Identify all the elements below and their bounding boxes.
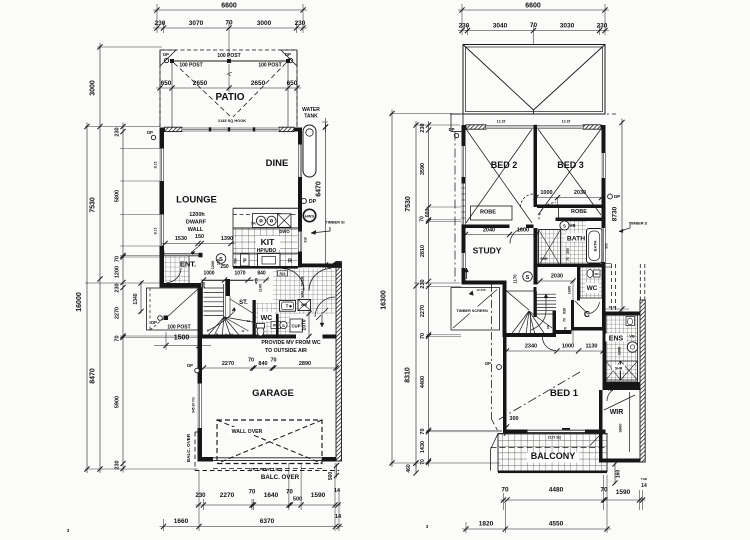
svg-text:460: 460 bbox=[406, 464, 412, 473]
svg-text:16300: 16300 bbox=[381, 290, 388, 310]
svg-text:WIR: WIR bbox=[610, 409, 624, 416]
dim 1070 laundry bbox=[308, 312, 310, 339]
shower next to study bbox=[539, 230, 561, 267]
garage door arrow bbox=[321, 312, 323, 327]
top wall brick piers bbox=[165, 127, 183, 131]
wc first floor bbox=[580, 267, 602, 298]
svg-text:70: 70 bbox=[420, 333, 426, 339]
bed1 ceiling dash-dot line bbox=[498, 372, 580, 420]
svg-text:14: 14 bbox=[641, 483, 647, 489]
kitchen bottom wall bbox=[233, 266, 298, 269]
svg-text:DINE: DINE bbox=[266, 158, 289, 169]
dim 16300 overall first floor bbox=[391, 110, 393, 468]
svg-text:1820: 1820 bbox=[479, 521, 494, 528]
svg-text:SHR: SHR bbox=[615, 367, 623, 371]
washing machine WM bbox=[298, 300, 311, 311]
hot water system HWS bbox=[303, 209, 315, 221]
svg-text:2270: 2270 bbox=[115, 307, 121, 319]
ground floor right wall with windows bbox=[298, 128, 302, 145]
garage dim 2270/70/840/70/2890 bbox=[201, 367, 340, 369]
svg-text:DN: DN bbox=[546, 325, 550, 329]
smoke detector S first floor bbox=[523, 272, 533, 282]
svg-text:1500: 1500 bbox=[174, 335, 190, 342]
room label KIT bbox=[256, 236, 280, 250]
dim 3000/7530/8470 left bbox=[99, 43, 101, 473]
svg-text:LOUNGE: LOUNGE bbox=[176, 195, 217, 206]
bed2/study wall and door bbox=[462, 225, 510, 229]
dwarf wall lounge/ent bbox=[164, 253, 200, 255]
svg-text:DP: DP bbox=[449, 127, 455, 132]
svg-text:1600: 1600 bbox=[517, 228, 529, 234]
svg-text:2650: 2650 bbox=[193, 80, 208, 87]
svg-text:2340: 2340 bbox=[525, 344, 537, 350]
svg-text:1340: 1340 bbox=[133, 293, 139, 304]
svg-text:S: S bbox=[282, 323, 285, 328]
kitchen floor tiles bbox=[234, 229, 298, 267]
svg-text:600: 600 bbox=[425, 209, 431, 218]
downpipe DP first floor right bbox=[608, 194, 613, 199]
svg-text:7530: 7530 bbox=[405, 196, 412, 212]
svg-text:70: 70 bbox=[270, 358, 276, 364]
roof corner box with DP bbox=[451, 114, 463, 132]
svg-text:1200: 1200 bbox=[211, 261, 215, 269]
svg-text:650: 650 bbox=[161, 80, 172, 87]
svg-text:12: 12 bbox=[247, 319, 251, 323]
laundry tub bbox=[280, 301, 296, 312]
wc small tag and S bbox=[271, 322, 281, 329]
svg-text:230: 230 bbox=[115, 283, 121, 292]
svg-text:S: S bbox=[526, 275, 530, 281]
svg-text:B.15: B.15 bbox=[154, 227, 158, 234]
study dim 2040/1600 bbox=[464, 234, 539, 236]
svg-text:TANK: TANK bbox=[304, 114, 318, 120]
svg-text:12.15: 12.15 bbox=[562, 120, 571, 124]
svg-text:TIMBER SI: TIMBER SI bbox=[325, 221, 344, 225]
svg-text:945 SF FG: 945 SF FG bbox=[192, 397, 196, 413]
svg-text:SK: SK bbox=[251, 222, 256, 226]
svg-text:3040: 3040 bbox=[493, 23, 508, 30]
roof outline plan bbox=[463, 45, 605, 115]
svg-text:TO OUTSIDE AIR: TO OUTSIDE AIR bbox=[265, 348, 307, 354]
dim 2030 stair first floor bbox=[538, 280, 575, 282]
downpipe DP top-left of patio bbox=[160, 50, 176, 66]
arrow up on study wall bbox=[466, 268, 468, 279]
dim chain 1660/6370 bottom bbox=[160, 526, 344, 528]
svg-text:100 POST: 100 POST bbox=[179, 63, 202, 69]
svg-text:WALL OVER: WALL OVER bbox=[301, 276, 305, 298]
dim chain 230/2270/70/1640/70/500/1590/140 bottom bbox=[196, 504, 342, 506]
svg-text:DP: DP bbox=[163, 52, 169, 57]
svg-text:70: 70 bbox=[420, 459, 426, 465]
wc pan ens bbox=[626, 317, 635, 326]
timber screen deck first floor bbox=[451, 288, 500, 331]
svg-text:70: 70 bbox=[420, 216, 426, 222]
kitchen sink bbox=[253, 214, 281, 228]
svg-text:WC: WC bbox=[594, 272, 599, 276]
window band top wall lounge/dine bbox=[182, 128, 279, 132]
dim 16000 overall left bbox=[86, 123, 88, 474]
svg-text:WALL: WALL bbox=[188, 227, 204, 233]
boundary wall right of garage (hatched) bbox=[336, 264, 342, 461]
svg-text:840: 840 bbox=[257, 271, 266, 277]
svg-text:VB: VB bbox=[569, 223, 575, 228]
svg-text:DP: DP bbox=[309, 199, 317, 205]
hall dim chain 1000/1070/840 bbox=[201, 279, 270, 281]
ens/wir dividing wall bbox=[603, 382, 645, 390]
svg-text:2890: 2890 bbox=[299, 361, 311, 367]
bed3 door arc bbox=[539, 203, 556, 220]
svg-text:BED 1: BED 1 bbox=[550, 388, 579, 399]
stair west wall first floor bbox=[503, 281, 507, 338]
svg-text:STUDY: STUDY bbox=[473, 246, 502, 256]
wir door arc bbox=[607, 388, 621, 402]
svg-text:70: 70 bbox=[563, 318, 567, 322]
svg-text:1600: 1600 bbox=[568, 286, 572, 294]
svg-text:230: 230 bbox=[115, 127, 121, 136]
svg-text:WM: WM bbox=[301, 303, 307, 307]
svg-text:1390: 1390 bbox=[221, 236, 233, 242]
downpipe DP right wall bbox=[301, 198, 306, 203]
patio post lines bbox=[159, 50, 161, 127]
svg-text:1070: 1070 bbox=[234, 271, 245, 277]
svg-text:2270: 2270 bbox=[222, 361, 234, 367]
garage bottom wall and door bbox=[198, 457, 214, 462]
svg-text:2270: 2270 bbox=[420, 305, 426, 317]
svg-text:1590: 1590 bbox=[311, 492, 326, 499]
laundry door arcs bbox=[282, 269, 304, 291]
svg-text:8470: 8470 bbox=[90, 368, 97, 384]
roof hip diagonals bbox=[463, 45, 534, 111]
kitchen-laundry top wall bbox=[298, 264, 336, 268]
svg-text:70: 70 bbox=[249, 490, 256, 496]
porch dashed edge bbox=[149, 288, 151, 330]
svg-text:100 POST: 100 POST bbox=[167, 325, 190, 331]
study step wall bbox=[462, 281, 507, 285]
svg-text:BED 3: BED 3 bbox=[557, 160, 584, 170]
svg-text:CUP: CUP bbox=[291, 324, 300, 329]
vanity VB first floor bath bbox=[560, 221, 569, 230]
svg-text:VB: VB bbox=[629, 334, 635, 339]
svg-text:BALCONY: BALCONY bbox=[531, 451, 576, 461]
svg-text:5900: 5900 bbox=[115, 396, 121, 408]
dim inner chain first floor bbox=[428, 121, 430, 467]
bed3 ceiling cross bbox=[538, 129, 601, 215]
bed2 door arc bbox=[521, 194, 534, 207]
ens tiled floor bbox=[606, 315, 638, 382]
svg-text:1530: 1530 bbox=[175, 236, 187, 242]
ent porch square with post bbox=[147, 288, 200, 330]
ground floor top wall bbox=[160, 128, 165, 132]
bath tub bbox=[587, 229, 603, 264]
svg-text:150: 150 bbox=[195, 234, 204, 240]
svg-text:WC: WC bbox=[629, 311, 635, 315]
study east wall bbox=[534, 228, 538, 285]
extension lines bottom right bbox=[465, 522, 467, 533]
svg-text:1070: 1070 bbox=[302, 319, 308, 330]
room label BALCONY bbox=[527, 453, 579, 463]
svg-text:4550: 4550 bbox=[549, 521, 564, 528]
dim chain 6600 (ground floor top) bbox=[153, 9, 307, 11]
dim 7530/8310 first floor bbox=[415, 121, 417, 467]
svg-text:KIT: KIT bbox=[261, 237, 276, 247]
extension lines first floor chains bbox=[390, 113, 452, 115]
wall west of wc bbox=[577, 267, 580, 301]
robe/bath wall bbox=[556, 218, 603, 222]
extension lines bottom bbox=[163, 519, 165, 531]
svg-text:8310: 8310 bbox=[405, 367, 412, 383]
patio centreline bbox=[228, 64, 230, 92]
svg-text:TIMBER SCREEN: TIMBER SCREEN bbox=[456, 309, 488, 313]
stair east wall bbox=[553, 311, 557, 334]
svg-text:3590: 3590 bbox=[420, 163, 426, 175]
svg-text:1170: 1170 bbox=[513, 274, 518, 284]
svg-text:70: 70 bbox=[420, 428, 426, 434]
dim inner chain left 230/5800/70/1200/230/2270/70/5900/230 bbox=[122, 123, 124, 473]
svg-text:70: 70 bbox=[248, 358, 254, 364]
svg-text:3300: 3300 bbox=[618, 347, 622, 355]
wc pan ground floor bbox=[257, 327, 264, 336]
garage top wall bbox=[199, 335, 296, 339]
dim 460 below 8310 bbox=[415, 462, 417, 474]
svg-text:6600: 6600 bbox=[221, 3, 237, 10]
bed1 dim 2340/1000/1130 bbox=[505, 350, 606, 352]
svg-text:160: 160 bbox=[616, 470, 622, 479]
wall between stair and wc bbox=[253, 300, 256, 338]
bed1 east wall bbox=[603, 331, 607, 383]
svg-text:1000: 1000 bbox=[203, 271, 214, 277]
wall stub between ent and stair bbox=[225, 279, 230, 296]
ground floor left wall with windows bbox=[160, 128, 165, 149]
svg-text:4480: 4480 bbox=[549, 487, 564, 494]
cupboard CUP bbox=[290, 319, 303, 332]
room label WC ground bbox=[258, 312, 275, 321]
svg-text:DP: DP bbox=[147, 130, 153, 135]
bath floor tiles bbox=[561, 221, 586, 266]
svg-text:WALL OVER: WALL OVER bbox=[232, 429, 263, 435]
hall wall to bed1 bbox=[556, 330, 572, 334]
cupboard C first floor bbox=[571, 300, 574, 327]
svg-text:ST.: ST. bbox=[239, 300, 248, 306]
svg-text:70: 70 bbox=[286, 490, 293, 496]
svg-text:DWARF: DWARF bbox=[186, 220, 207, 226]
svg-text:11: 11 bbox=[241, 329, 245, 333]
svg-text:1000: 1000 bbox=[540, 190, 552, 196]
svg-text:3070: 3070 bbox=[189, 20, 204, 27]
svg-text:1000: 1000 bbox=[562, 344, 574, 350]
robe bed3 bbox=[559, 206, 603, 220]
svg-text:S: S bbox=[563, 224, 566, 229]
ent step wall bbox=[160, 283, 202, 288]
svg-text:70: 70 bbox=[115, 256, 121, 262]
garage left wall with window bbox=[198, 288, 203, 384]
bed1 south wall with sliding door bbox=[503, 430, 528, 434]
dim chain 230/3070/70/3000/230 (ground floor top) bbox=[153, 27, 307, 29]
patio roof dashed diagonals bbox=[174, 63, 231, 117]
svg-text:310: 310 bbox=[304, 237, 308, 243]
svg-text:700: 700 bbox=[234, 258, 238, 264]
svg-text:230: 230 bbox=[195, 493, 206, 499]
svg-text:500: 500 bbox=[328, 472, 334, 481]
svg-text:WC: WC bbox=[587, 285, 598, 292]
dim 1000/2030 bed3 bbox=[534, 197, 604, 199]
svg-text:2040: 2040 bbox=[483, 228, 495, 234]
downpipe dash line west of bed1 bbox=[491, 284, 493, 419]
first floor left wall with windows bbox=[462, 125, 466, 146]
stair ground floor bbox=[202, 280, 204, 338]
stair bottom wall first floor bbox=[507, 333, 557, 337]
laundry floor tiles bbox=[273, 269, 335, 315]
room label BATH bbox=[566, 234, 587, 242]
dim 6470 right of dine bbox=[325, 123, 327, 269]
svg-text:DP: DP bbox=[151, 320, 157, 325]
first floor top wall bbox=[462, 125, 467, 129]
svg-text:1100: 1100 bbox=[259, 284, 263, 292]
svg-text:70: 70 bbox=[501, 487, 509, 494]
dim 1340 ent side bbox=[140, 281, 142, 314]
svg-text:TIMBER S: TIMBER S bbox=[629, 222, 648, 226]
svg-text:3000: 3000 bbox=[257, 20, 272, 27]
downpipe DP top-right of patio bbox=[281, 50, 297, 66]
dim chain 230/3040/70/3030/230 first floor bbox=[458, 30, 609, 32]
svg-text:230: 230 bbox=[420, 279, 426, 288]
dim chain 6600 (first floor top) bbox=[458, 9, 609, 11]
svg-text:SHR: SHR bbox=[540, 257, 548, 261]
svg-text:BALC. OVER: BALC. OVER bbox=[186, 433, 191, 462]
svg-text:DP: DP bbox=[614, 194, 620, 199]
svg-text:2145 SQ HOOK: 2145 SQ HOOK bbox=[218, 118, 246, 123]
svg-text:1430: 1430 bbox=[420, 441, 426, 453]
svg-text:100 POST: 100 POST bbox=[258, 63, 281, 69]
svg-text:WATER: WATER bbox=[302, 107, 320, 113]
dim 8730 right bbox=[621, 119, 623, 314]
stair winders ground floor bbox=[206, 317, 224, 338]
svg-text:5800: 5800 bbox=[115, 190, 121, 202]
vanity basin ens bbox=[627, 342, 637, 352]
dashed lines east of bath bbox=[611, 264, 613, 314]
svg-text:DP: DP bbox=[187, 363, 193, 368]
svg-text:840: 840 bbox=[258, 361, 267, 367]
svg-text:B.15: B.15 bbox=[154, 161, 158, 168]
dim chain 70/4480/70/1590/140 bottom right bbox=[501, 499, 646, 501]
svg-text:6600: 6600 bbox=[525, 3, 541, 10]
first floor right wall with windows bbox=[602, 125, 606, 153]
svg-text:300: 300 bbox=[509, 416, 518, 422]
svg-text:3600: 3600 bbox=[618, 423, 623, 433]
boundary wall east (hatched) bbox=[640, 300, 645, 462]
svg-text:DP: DP bbox=[485, 361, 491, 366]
svg-text:1590: 1590 bbox=[616, 489, 631, 496]
svg-text:230: 230 bbox=[597, 23, 608, 30]
svg-text:2810: 2810 bbox=[420, 245, 426, 257]
patio dashed outline bbox=[160, 50, 297, 127]
svg-text:300: 300 bbox=[566, 248, 570, 254]
svg-text:3000: 3000 bbox=[90, 80, 97, 96]
svg-text:GARAGE: GARAGE bbox=[252, 388, 294, 399]
svg-text:R: R bbox=[288, 259, 292, 265]
dim 160 balcony return bbox=[614, 463, 616, 484]
roof eave dash-dot line bbox=[450, 113, 616, 115]
stair first floor bbox=[507, 290, 534, 292]
svg-text:7530: 7530 bbox=[90, 197, 97, 213]
svg-text:R19: R19 bbox=[280, 272, 286, 276]
first floor top wall brick piers bbox=[466, 125, 486, 129]
svg-text:150: 150 bbox=[217, 259, 221, 265]
svg-text:1660: 1660 bbox=[174, 518, 189, 525]
svg-text:14: 14 bbox=[335, 514, 342, 520]
bed1 west wall bbox=[503, 337, 507, 433]
shower ens bbox=[606, 361, 621, 380]
svg-text:4400: 4400 bbox=[420, 376, 426, 388]
svg-text:70: 70 bbox=[115, 335, 121, 341]
dim 1530/150/1390 dwarf wall bbox=[161, 243, 235, 245]
downpipe dash-dot line west wall first floor bbox=[454, 132, 456, 284]
svg-text:1640: 1640 bbox=[264, 492, 279, 499]
svg-text:T: T bbox=[286, 304, 289, 309]
svg-text:ENS: ENS bbox=[609, 336, 624, 343]
svg-text:250: 250 bbox=[202, 282, 206, 288]
svg-text:230: 230 bbox=[115, 460, 121, 469]
svg-text:3030: 3030 bbox=[560, 23, 575, 30]
svg-text:1200: 1200 bbox=[115, 266, 121, 278]
svg-text:PATIO: PATIO bbox=[215, 92, 244, 103]
svg-text:70: 70 bbox=[566, 257, 570, 261]
wir walls and shelf bbox=[599, 390, 603, 462]
svg-text:2270: 2270 bbox=[220, 492, 235, 499]
svg-text:ROBE: ROBE bbox=[571, 209, 587, 215]
dishwasher DW bbox=[278, 214, 292, 228]
svg-text:WC: WC bbox=[261, 315, 273, 322]
svg-text:BALC. OVER: BALC. OVER bbox=[261, 474, 300, 481]
ent floor tiles and door arc bbox=[165, 257, 189, 283]
svg-text:230: 230 bbox=[155, 20, 166, 27]
dim 500 at garage corner bbox=[336, 464, 338, 478]
svg-text:HWS: HWS bbox=[305, 214, 315, 219]
svg-text:BATH: BATH bbox=[593, 240, 598, 251]
svg-text:12.015: 12.015 bbox=[476, 288, 486, 292]
svg-text:930: 930 bbox=[563, 308, 567, 314]
svg-text:BED 2: BED 2 bbox=[491, 160, 518, 170]
dim chain 1820/4550 bottom right bbox=[462, 528, 611, 530]
kitchen lower bench with pantry oven fridge bbox=[233, 252, 298, 254]
svg-text:PROVIDE MV FROM WC: PROVIDE MV FROM WC bbox=[261, 340, 321, 346]
svg-text:DP: DP bbox=[285, 52, 291, 57]
svg-text:8730: 8730 bbox=[612, 206, 619, 221]
svg-text:570: 570 bbox=[564, 327, 568, 333]
extension lines left chains bbox=[85, 126, 160, 128]
room label ENS bbox=[606, 334, 627, 342]
svg-text:1200h: 1200h bbox=[189, 212, 205, 218]
svg-text:16000: 16000 bbox=[76, 292, 83, 312]
bath/wc dividing wall bbox=[538, 264, 606, 268]
wir bottom wall bbox=[599, 459, 645, 463]
balcony over dashed outline left bbox=[194, 432, 196, 471]
bed1 door arc bbox=[543, 337, 557, 351]
wall over dashed box in garage bbox=[217, 420, 322, 464]
bed2 ceiling cross bbox=[466, 129, 532, 223]
kitchen bench and fixtures bbox=[233, 207, 298, 209]
svg-text:12.15: 12.15 bbox=[497, 120, 506, 124]
tilt panel lift door dashed bbox=[213, 468, 322, 470]
window band top wall bed2/bed3 bbox=[486, 125, 583, 129]
insulation tag bbox=[278, 271, 288, 276]
balcony first floor bbox=[498, 434, 607, 472]
svg-text:THB: THB bbox=[641, 477, 648, 481]
svg-text:6470: 6470 bbox=[316, 181, 323, 197]
svg-text:100 POST: 100 POST bbox=[217, 53, 240, 59]
svg-text:450: 450 bbox=[255, 278, 259, 284]
svg-text:905: 905 bbox=[605, 243, 609, 249]
ens top wall bbox=[603, 312, 645, 316]
